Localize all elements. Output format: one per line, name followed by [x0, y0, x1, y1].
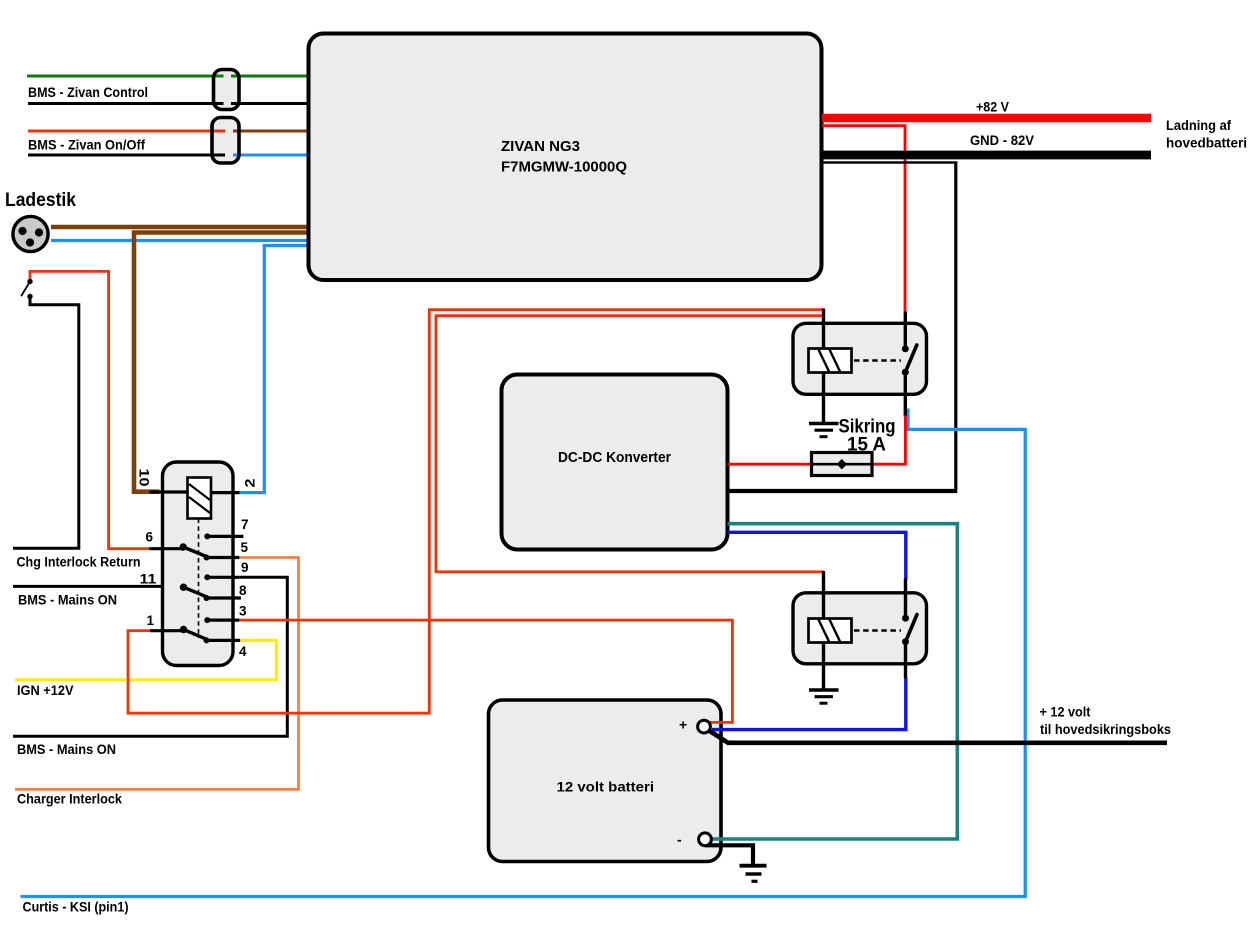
relay K2 dashed link	[854, 629, 901, 631]
svg-text:10: 10	[137, 469, 152, 487]
ground relay K2 coil	[809, 690, 839, 703]
pin 5 contact	[204, 555, 240, 561]
wire black battery minus to ground	[705, 845, 753, 864]
key switch dashed actuator line	[198, 519, 200, 639]
wire blue relay K2 switch to battery plus	[712, 678, 906, 730]
svg-text:4: 4	[239, 644, 247, 659]
wire black GND vertical	[954, 161, 957, 489]
svg-text:Ladning af: Ladning af	[1166, 118, 1231, 133]
svg-text:Ladestik: Ladestik	[5, 189, 76, 211]
svg-text:1: 1	[147, 613, 155, 628]
svg-text:Charger Interlock: Charger Interlock	[17, 792, 122, 807]
relay K1 dashed link	[854, 359, 901, 361]
pin 8 contact	[204, 595, 241, 601]
wire black Chg Interlock Return from switch	[13, 297, 79, 549]
svg-text:9: 9	[241, 560, 249, 575]
wire brown BMS Zivan On/Off to charger	[233, 130, 309, 133]
interlock switch S1	[22, 279, 33, 299]
switch pole B blade	[180, 584, 207, 597]
svg-text:11: 11	[140, 572, 158, 587]
wire black thick GND 82V output	[822, 151, 1151, 160]
svg-text:BMS - Zivan On/Off: BMS - Zivan On/Off	[28, 138, 145, 153]
svg-text:Curtis - KSI (pin1): Curtis - KSI (pin1)	[23, 900, 129, 915]
relay K2 coil lead top	[822, 571, 825, 620]
wire green BMS Zivan Control	[27, 75, 309, 78]
wire blue mains neutral from plug to charger	[51, 239, 309, 242]
switch pole A blade	[180, 543, 207, 556]
pin 10 lead	[150, 490, 188, 493]
svg-text:5: 5	[241, 540, 249, 555]
svg-text:GND - 82V: GND - 82V	[970, 133, 1034, 148]
pin 3 contact	[204, 617, 239, 623]
wire black GND from charger down right side	[822, 161, 954, 164]
pin 1 lead	[150, 629, 184, 632]
ground battery minus	[740, 866, 767, 882]
pin 4 contact	[204, 637, 241, 643]
wire brown mains live from plug to charger	[51, 225, 309, 230]
wire yellow IGN +12V to pin 4	[15, 640, 276, 679]
wire teal DC-DC minus to battery minus	[712, 524, 957, 839]
charger ZIVAN NG3 box	[309, 34, 822, 281]
wire red thick +82V output	[822, 114, 1151, 123]
relay K1 coil lead top	[822, 309, 825, 351]
relay K2 coil	[809, 619, 852, 643]
key switch coil	[188, 478, 212, 519]
svg-text:3: 3	[239, 603, 247, 618]
svg-text:-: -	[677, 832, 682, 848]
svg-text:hovedbatteri: hovedbatteri	[1166, 136, 1247, 151]
svg-text:IGN +12V: IGN +12V	[17, 683, 74, 698]
svg-text:BMS - Zivan Control: BMS - Zivan Control	[28, 85, 148, 100]
pin 6 lead	[150, 547, 184, 550]
svg-text:BMS - Mains ON: BMS - Mains ON	[17, 742, 116, 757]
relay K1 coil lead bottom	[822, 373, 825, 423]
mains plug Ladestik	[13, 216, 48, 251]
svg-text:12 volt batteri: 12 volt batteri	[557, 779, 655, 795]
wire black BMS Mains ON to pin 9	[13, 577, 287, 736]
wire red relay K1 switch through fuse to DC-DC	[728, 416, 906, 465]
ferrite connector F2 body	[212, 118, 239, 164]
wire red pin 3 to 12V battery plus	[239, 620, 732, 722]
fuse Sikring 15A	[812, 453, 873, 476]
svg-text:DC-DC Konverter: DC-DC Konverter	[558, 450, 671, 466]
ferrite connector F2 outline	[212, 118, 239, 164]
battery plus terminal	[698, 720, 711, 733]
svg-text:6: 6	[146, 529, 154, 544]
svg-text:Chg Interlock Return: Chg Interlock Return	[17, 555, 141, 570]
pin 9 contact	[204, 574, 239, 580]
switch pole C blade	[180, 626, 207, 639]
wire red BMS Zivan On/Off	[28, 130, 225, 133]
relay K1 coil	[809, 349, 852, 373]
relay K2 switch	[902, 579, 917, 679]
wire blue BMS Zivan On/Off to charger	[233, 154, 309, 157]
svg-text:2: 2	[243, 479, 258, 488]
svg-text:ZIVAN NG3: ZIVAN NG3	[501, 139, 580, 155]
relay K2 body	[793, 593, 927, 664]
svg-text:F7MGMW-10000Q: F7MGMW-10000Q	[501, 160, 627, 176]
ferrite connector F1 outline	[214, 70, 240, 110]
svg-text:BMS - Mains ON: BMS - Mains ON	[18, 593, 117, 608]
wire brown to connector pin 10	[134, 233, 309, 492]
battery minus terminal	[699, 833, 712, 846]
wire black BMS Mains ON to pin 11	[13, 585, 184, 588]
ground relay K1 coil	[809, 424, 839, 437]
wire red thin +82V to relay K1 switch	[822, 126, 905, 313]
svg-text:til hovedsikringsboks: til hovedsikringsboks	[1040, 722, 1171, 737]
relay K2 coil lead bottom	[822, 643, 825, 690]
pin 2 lead	[211, 491, 239, 494]
pin 7 contact	[204, 533, 243, 539]
wire black +12V to hovedsikringsboks	[708, 730, 1168, 743]
svg-text:+: +	[679, 717, 687, 733]
wire red pin 1 to relay coils loop	[128, 310, 824, 714]
wire red interlock switch to pin 6	[30, 271, 150, 548]
battery 12V box	[489, 700, 722, 862]
key switch block body	[163, 462, 234, 666]
wire orange Charger Interlock to pin 5	[15, 558, 299, 790]
wire blue to connector pin 2	[238, 246, 309, 493]
relay K1 switch	[902, 312, 917, 417]
wire blue DC-DC plus to relay K2 switch	[728, 532, 906, 580]
svg-text:+82 V: +82 V	[976, 100, 1009, 115]
wire red relay K1 coil to relay K2 coil	[436, 316, 824, 572]
wire black BMS Zivan On/Off return	[28, 154, 225, 157]
svg-text:7: 7	[241, 517, 249, 532]
wire blue Curtis KSI from relay K1 switch	[21, 409, 1026, 897]
relay K1 body	[793, 323, 927, 394]
wire black BMS Zivan Control return	[28, 102, 309, 105]
svg-text:+ 12 volt: + 12 volt	[1040, 705, 1091, 720]
wire black GND to DC-DC converter	[728, 489, 958, 493]
DC-DC converter box	[502, 375, 728, 550]
svg-text:8: 8	[239, 583, 247, 598]
ferrite connector F1 body	[214, 70, 240, 110]
